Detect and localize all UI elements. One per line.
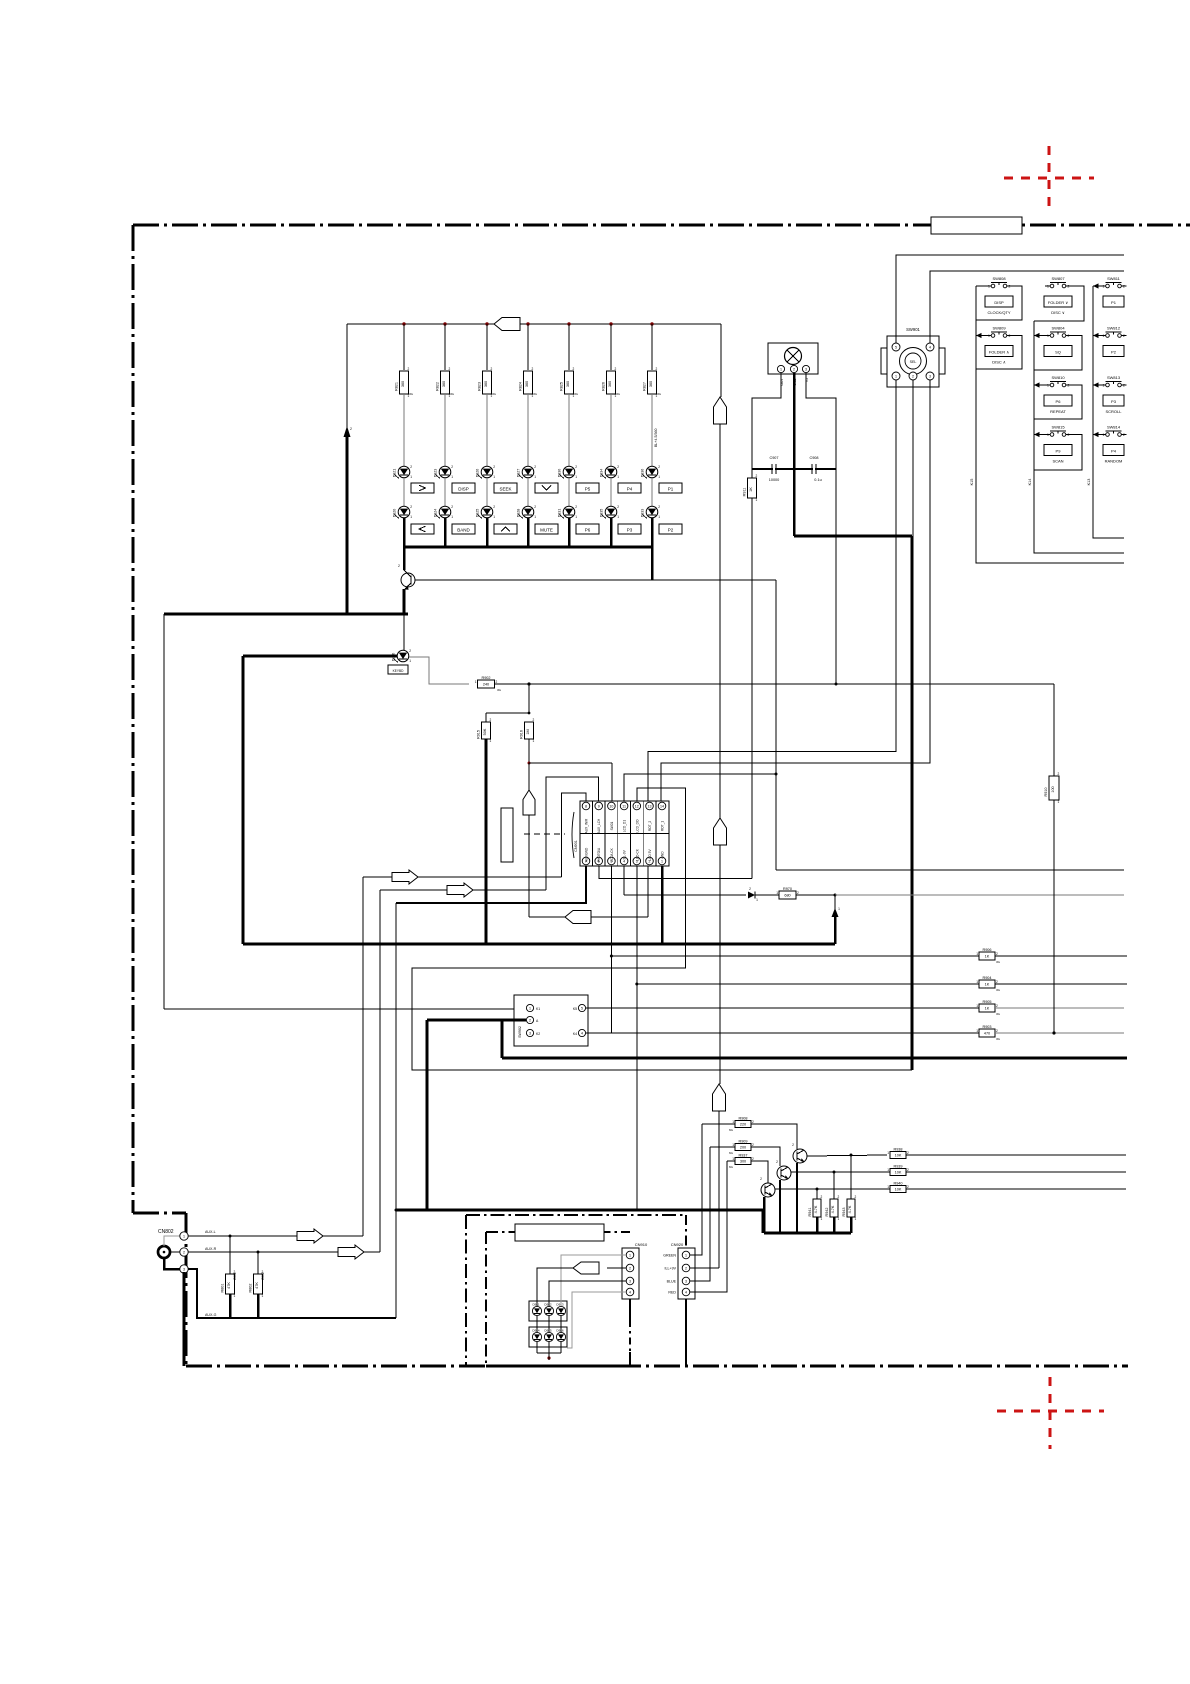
wire main ground bottom rail [396,1209,763,1212]
svg-text:P5: P5 [585,487,591,492]
svg-text:C802: C802 [261,1272,265,1280]
wire D834 to D835 [610,478,612,506]
svg-text:1: 1 [451,475,453,479]
CN910 pin 4 [626,1288,634,1296]
svg-text:FOLDER ∧: FOLDER ∧ [989,350,1009,355]
svg-text:2: 2 [529,1019,531,1023]
svg-text:2: 2 [793,368,795,372]
resistor R825 360 [565,371,574,394]
wire D827 to D828 [527,478,529,506]
svg-text:2: 2 [451,465,453,469]
svg-text:2: 2 [1068,433,1070,437]
wire D820 cathode [403,518,406,547]
svg-text:4: 4 [581,1032,583,1036]
svg-text:D831: D831 [558,509,562,518]
wire base line down right [775,580,777,870]
CN901 pin 3 LCD-CK [633,857,641,865]
svg-text:360: 360 [566,381,570,387]
wire AUX-L riser [362,877,364,1236]
svg-text:P1: P1 [668,487,674,492]
svg-text:3: 3 [685,1280,687,1284]
CN901 pin 2 LCD 5V [646,857,654,865]
label P2 [659,524,682,534]
svg-text:10K: 10K [895,1188,902,1192]
svg-text:2: 2 [183,1251,185,1255]
capacitor C908 0.1u [811,464,813,474]
CN901 pin 11 LCD_D1 [620,802,628,810]
svg-text:2: 2 [907,1168,909,1172]
resistor R822 360 [441,371,450,394]
svg-text:PHOTO/A: PHOTO/A [597,847,601,862]
wire column D836 [651,324,653,370]
svg-text:P2: P2 [1111,350,1117,355]
CN901 pin 14 ROT_1 [658,802,666,810]
svg-text:DISP: DISP [458,487,469,492]
svg-text:1: 1 [1058,800,1060,804]
CN920 pin 3 BLUE [682,1277,690,1285]
resistor R821 360 [400,371,409,394]
net flag ILL+9V upper [714,397,727,424]
svg-text:P2: P2 [668,528,674,533]
svg-text:R937: R937 [738,1153,747,1157]
wire column D827 [527,324,529,370]
LED grid row2 box [529,1327,567,1347]
wire CN920 ILL+9V [690,1267,719,1269]
svg-text:C907: C907 [769,456,778,460]
resistor R937 300 [735,1158,751,1165]
label > [411,483,434,493]
wire R909 to Q910 base [751,1147,780,1166]
wire D828 cathode [527,518,530,547]
svg-text:50K: 50K [483,728,487,735]
LED D916 [556,1332,565,1341]
node LED column 7 junction [650,322,653,325]
inner boundary box right via CN920 [685,1215,687,1249]
svg-text:SCROLL: SCROLL [1105,409,1122,414]
node R902 junction [527,682,530,685]
svg-text:2: 2 [532,367,534,371]
wire column D834 [610,324,612,370]
svg-text:3G: 3G [533,392,538,396]
svg-text:2: 2 [449,367,451,371]
wire D810 to R902 [409,657,469,684]
wire key bus drop [242,656,245,944]
svg-text:2: 2 [491,367,493,371]
label KEYBD [388,665,408,674]
svg-text:CLOCK/QTY: CLOCK/QTY [987,310,1010,315]
wire D833 cathode [651,518,654,547]
border frame left [132,225,135,1213]
svg-text:RED: RED [668,1291,676,1295]
svg-text:4.7K: 4.7K [831,1205,835,1213]
LED D833 [646,506,658,518]
svg-text:AUX_LCH: AUX_LCH [597,818,601,833]
wire R970 to junction [796,894,835,896]
node LED column 5 junction [567,322,570,325]
wire Q emitters to bus [763,1197,766,1233]
svg-text:R905: R905 [982,1000,991,1004]
label P4 [618,483,641,493]
CN901 pin 8 AUX_IN/R [582,802,590,810]
LED D913 [556,1306,565,1315]
wire flag to CN901 pin2 [591,916,648,918]
svg-text:1: 1 [490,739,492,743]
svg-text:1: 1 [234,1294,236,1298]
svg-text:3: 3 [529,1032,531,1036]
LED D912 [544,1306,553,1315]
svg-text:1K: 1K [985,955,990,959]
svg-text:1: 1 [575,475,577,479]
svg-text:1: 1 [756,898,758,902]
wire R937 to Q909 base [751,1161,768,1183]
wire LCD-CK row [637,983,979,985]
wire R821 to D821 [403,394,405,466]
wire top-right k-line bus 1 [375,1214,377,1216]
wire to R915 [486,712,529,714]
svg-text:3: 3 [805,368,807,372]
wire SW902 K4 line [586,1032,979,1034]
inner boundary box left [465,1215,467,1366]
LED D914 [532,1332,541,1341]
svg-text:1: 1 [1047,285,1049,289]
keyboard unit box left [485,1232,487,1366]
svg-text:R821: R821 [394,382,398,391]
wire CN901 pin9 up-left [546,777,599,890]
svg-text:P6: P6 [1056,399,1062,404]
resistor R902 240 [478,680,495,688]
svg-text:D820: D820 [393,509,397,518]
svg-text:2: 2 [752,1120,754,1124]
svg-text:K1: K1 [536,1007,540,1011]
svg-text:1M: 1M [526,729,530,734]
wire SW902 common thick [427,1019,526,1022]
wire ILL line lower [719,845,721,1084]
svg-text:P4: P4 [1111,449,1117,454]
svg-text:2: 2 [410,505,412,509]
svg-text:1: 1 [685,1254,687,1258]
svg-text:3G: 3G [616,392,621,396]
svg-text:1: 1 [732,1157,734,1161]
svg-text:1: 1 [838,907,840,911]
svg-text:1: 1 [658,515,660,519]
svg-text:3: 3 [183,1268,185,1272]
svg-text:2: 2 [1058,772,1060,776]
svg-text:D914: D914 [532,1329,540,1333]
LED D834 [605,466,617,478]
label P6 [576,524,599,534]
label MUTE [535,524,558,534]
svg-text:1: 1 [821,1217,823,1221]
svg-text:D911: D911 [533,1303,540,1307]
wire R910 to K line [1053,800,1055,1033]
node LED column 4 junction [526,322,529,325]
net flag ILL on CN910 line [573,1262,599,1274]
svg-text:0.1u: 0.1u [814,478,821,482]
svg-text:360: 360 [649,381,653,387]
wire AUX_L line [363,876,562,878]
resistor R906 1K [979,952,995,960]
svg-text:D821: D821 [393,469,397,478]
svg-text:8: 8 [585,805,587,809]
wire jack shield to frame [183,1272,186,1366]
svg-text:SW814: SW814 [1107,425,1121,430]
svg-text:10000: 10000 [769,478,780,482]
svg-text:MUTE: MUTE [540,528,553,533]
svg-text:D833: D833 [641,509,645,518]
wire R826 to D834 [610,394,612,466]
svg-text:1K: 1K [985,983,990,987]
LED D810 key illumination [403,614,405,650]
svg-text:2: 2 [533,718,535,722]
resistor R903 470 [979,1029,995,1037]
wire LCD_D1 row to edge [776,869,1124,871]
wire SW901 pin4 up [930,271,1124,343]
svg-text:1K: 1K [749,487,753,492]
resistor R916 1M [525,722,534,739]
wire PHOTO line [599,866,752,879]
svg-text:2: 2 [1068,285,1070,289]
wire AUX-R riser [379,890,381,1252]
svg-text:9: 9 [598,805,600,809]
svg-text:KEYBD: KEYBD [393,669,405,673]
svg-text:CN802: CN802 [158,1229,174,1235]
svg-text:12: 12 [635,805,639,809]
wires LED grid columns [536,1316,538,1332]
svg-text:BLUE: BLUE [667,1280,677,1284]
svg-text:DISC ∨: DISC ∨ [1051,310,1065,315]
svg-text:4.7K: 4.7K [814,1205,818,1213]
svg-text:2: 2 [410,465,412,469]
svg-text:ROT_1: ROT_1 [661,821,665,832]
svg-text:R938: R938 [893,1147,902,1151]
svg-text:R915: R915 [476,730,480,739]
svg-text:1: 1 [887,1185,889,1189]
LED D825 [481,506,493,518]
resistor R802 47K [257,1252,259,1274]
wire main ground vertical [911,536,914,1070]
wire AUX-L [188,1235,363,1237]
svg-text:2: 2 [490,718,492,722]
wire thick rail to CN920 row [426,1020,429,1210]
svg-text:C908: C908 [809,456,818,460]
svg-text:1: 1 [410,515,412,519]
label BAND [452,524,475,534]
svg-text:5: 5 [581,1007,583,1011]
svg-text:BAND: BAND [457,528,470,533]
node AUX-R tap [257,1251,260,1254]
svg-text:2: 2 [1009,285,1011,289]
wire LED cathode bus [404,546,652,549]
net flag LCD-CK left [565,911,591,924]
svg-text:1K: 1K [985,1007,990,1011]
wire jack tip to pin1 [164,1236,180,1246]
svg-text:K2: K2 [536,1032,540,1036]
wire D830 to D831 [568,478,570,506]
resistor R942 4.7k pulldown [833,1171,836,1174]
LED D915 [544,1332,553,1341]
border frame bottom [186,1365,1128,1368]
photo sensor pins [777,365,784,372]
wire cap rail [752,468,836,470]
wire CN901 pin11 to base line [624,774,776,801]
wire SW902 K5 line [586,1007,979,1009]
wire column D830 [568,324,570,370]
svg-text:1: 1 [976,952,978,956]
keyboard unit box top [486,1231,630,1233]
svg-text:D916: D916 [556,1329,564,1333]
wire GREEN to R908 [702,1123,735,1125]
svg-text:3G: 3G [996,988,1001,992]
svg-text:D835: D835 [600,509,604,518]
wire SW901 pin1 down to ROT line [648,380,896,801]
resistor R939 10K [890,1169,906,1176]
svg-text:CN901: CN901 [574,840,578,852]
border frame step bottom-left [133,1212,186,1215]
resistor R826 360 [607,371,616,394]
svg-text:4: 4 [629,1291,631,1295]
svg-text:P3: P3 [627,528,633,533]
wire SW901 pin5 up [896,255,1124,343]
svg-text:2: 2 [838,1195,840,1199]
svg-text:1: 1 [183,1235,185,1239]
wire R970 line to edge [835,894,1124,896]
svg-text:1: 1 [976,1029,978,1033]
svg-text:2: 2 [912,375,914,379]
svg-text:1: 1 [780,368,782,372]
svg-text:R908: R908 [738,1116,747,1120]
wire ground rail left drop [163,614,165,1009]
wire D826 to D825 [486,478,488,506]
LED D826 [481,466,493,478]
wire CN920 GREEN [690,1124,702,1255]
resistor R911 1K [748,478,757,498]
svg-text:P9: P9 [1056,449,1062,454]
SW902 pin K1 [526,1004,533,1011]
LED D830 [563,466,575,478]
svg-text:1: 1 [451,515,453,519]
wire K13 column [1093,286,1124,538]
svg-text:1: 1 [529,1007,531,1011]
svg-text:3G: 3G [996,960,1001,964]
CN901 pin 6 PHOTO/A [595,857,603,865]
LED D831 [563,506,575,518]
border frame left lower [185,1213,188,1366]
resistor R823 360 [483,371,492,394]
wire encoder common drop [502,1057,1127,1060]
wire CN901 pin12 GND chain [412,788,912,1070]
svg-text:360: 360 [608,381,612,387]
svg-text:SEEK: SEEK [499,487,511,492]
net flag AUX_L [392,870,418,884]
svg-text:1: 1 [475,680,477,684]
svg-text:1: 1 [493,515,495,519]
LED D836 [646,466,658,478]
net flag ILL+9V lower [713,1084,726,1111]
svg-text:1: 1 [895,375,897,379]
wire ILL line mid [719,424,721,818]
keyboard unit box bottom solid [486,1365,640,1368]
wire grid bottom bar [537,1352,561,1354]
net flag ILL+9V middle [714,818,727,845]
svg-text:R902: R902 [481,676,490,680]
svg-text:1: 1 [976,1004,978,1008]
svg-text:360: 360 [525,381,529,387]
wire AUX-G path [188,1269,396,1318]
wire R910 drop [1053,684,1055,776]
wire AUX_R line [380,889,546,891]
svg-text:R909: R909 [738,1139,747,1143]
svg-text:R903: R903 [982,1025,991,1029]
svg-text:240: 240 [483,683,489,687]
LED D823 [439,466,451,478]
node R910 junction [1052,1031,1055,1034]
svg-text:4.7K: 4.7K [848,1205,852,1213]
svg-text:SEL: SEL [910,360,917,364]
current arrow on supply wire [344,426,351,437]
svg-text:SCAN: SCAN [1052,459,1063,464]
wire R939 to edge [906,1171,1126,1173]
svg-text:AUX-R: AUX-R [205,1247,217,1251]
svg-text:1: 1 [493,475,495,479]
CN802 pin3 [180,1265,188,1273]
wire D824 cathode [444,518,447,547]
svg-text:R827: R827 [642,382,646,391]
wire R905 grey to edge [995,1007,1124,1009]
svg-text:10K: 10K [895,1154,902,1158]
connector CN901 body [580,801,669,866]
svg-text:R943: R943 [842,1207,846,1216]
svg-text:R825: R825 [559,382,563,391]
svg-text:2: 2 [451,505,453,509]
transistor Q911 [793,1149,807,1163]
svg-text:1: 1 [617,515,619,519]
label DISP [452,483,475,493]
wire R827 to D836 [651,394,653,466]
resistor R904 1K [979,980,995,988]
LED D835 [605,506,617,518]
svg-text:R911: R911 [742,488,746,497]
svg-text:100: 100 [1051,786,1055,792]
svg-text:47K: 47K [255,1282,259,1289]
svg-text:2: 2 [1009,334,1011,338]
CN901 pin 12 LCD_DO [633,802,641,810]
svg-text:SW810: SW810 [1051,375,1065,380]
svg-text:2: 2 [821,1195,823,1199]
svg-text:2: 2 [907,1185,909,1189]
wire R940 to edge [906,1188,1126,1190]
wire CN910 pin1 to grid [561,1255,626,1306]
svg-text:1: 1 [533,739,535,743]
svg-text:1: 1 [629,1254,631,1258]
svg-text:R942: R942 [825,1207,829,1216]
svg-text:3-L-9V: 3-L-9V [623,849,627,859]
wire R911 down [751,498,753,879]
svg-text:2: 2 [629,1267,631,1271]
svg-text:DISP: DISP [994,300,1004,305]
LED D828 [522,506,534,518]
svg-text:K5: K5 [573,1007,577,1011]
border frame top [133,223,1190,226]
wire R916 down [528,739,530,763]
wire CN910 pin4 grey [567,1292,626,1348]
wire ground rail horizontal [164,613,408,616]
svg-text:1: 1 [575,515,577,519]
svg-text:D827: D827 [517,469,521,478]
svg-text:2: 2 [685,1267,687,1271]
wire 3-L-9V line [623,866,625,895]
transistor Q801 [403,547,406,570]
svg-text:ROT_2: ROT_2 [648,821,652,832]
